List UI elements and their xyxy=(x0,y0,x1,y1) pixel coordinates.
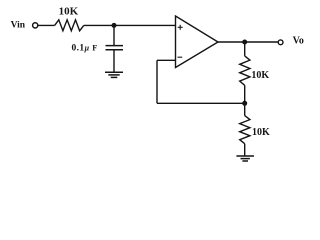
svg-text:Vin: Vin xyxy=(11,21,26,31)
wire R3 to ground xyxy=(244,144,246,156)
label Vin xyxy=(11,21,26,31)
resistor R1 xyxy=(55,20,84,31)
wire op-amp inverting input to feedback xyxy=(157,59,176,61)
wire R1 to op-amp noninverting input (through node A) xyxy=(84,24,176,26)
terminal Vin xyxy=(33,23,38,28)
op-amp U1 xyxy=(176,16,219,68)
wire feedback vertical segment xyxy=(156,60,158,103)
wire node A to capacitor C1 xyxy=(113,25,115,45)
label C1 value 0.1uF xyxy=(72,43,98,53)
node C junction xyxy=(242,101,247,106)
ground (left, below C1) xyxy=(105,72,123,77)
label R2 value 10K xyxy=(251,70,269,81)
label R1 value 10K xyxy=(59,5,79,17)
resistor R3 xyxy=(240,116,250,144)
ground (right, below R3) xyxy=(236,156,254,161)
wire op-amp output to terminal Vo (through node B) xyxy=(218,41,278,43)
node A junction xyxy=(112,23,117,28)
svg-text:10K: 10K xyxy=(59,5,79,17)
node B junction xyxy=(242,40,247,45)
wire Vin terminal to R1 xyxy=(38,24,55,26)
wire C1 to ground xyxy=(113,50,115,73)
wire node C to R3 xyxy=(244,103,246,115)
svg-text:10K: 10K xyxy=(251,70,269,81)
capacitor C1 xyxy=(106,46,124,50)
wire node B to R2 xyxy=(244,42,246,56)
resistor R2 xyxy=(240,56,250,85)
wire feedback horizontal to node C xyxy=(157,102,245,104)
terminal Vo xyxy=(278,40,283,45)
svg-text:10K: 10K xyxy=(252,127,270,138)
svg-text:Vo: Vo xyxy=(293,36,304,47)
label Vo xyxy=(293,36,304,47)
wire R2 to node C xyxy=(244,85,246,103)
svg-text:0.1μ F: 0.1μ F xyxy=(72,43,98,53)
label R3 value 10K xyxy=(252,127,270,138)
